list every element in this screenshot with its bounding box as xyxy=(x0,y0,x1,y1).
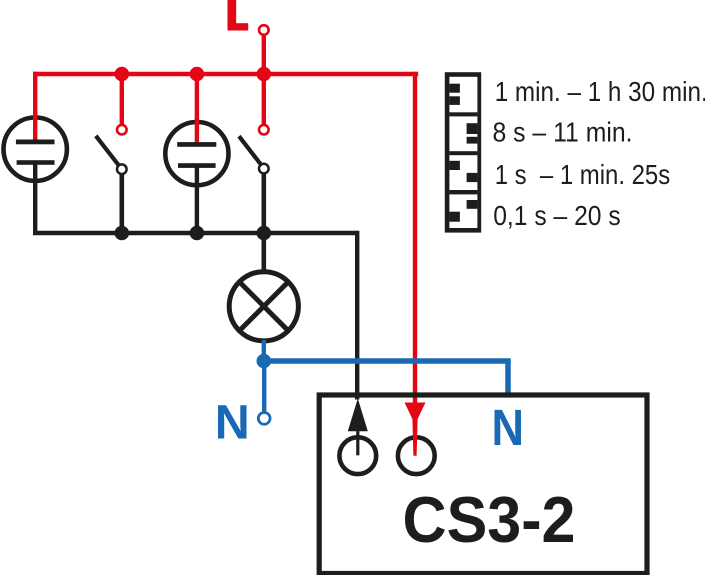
terminal S2 xyxy=(259,125,269,135)
terminal L xyxy=(259,25,269,35)
lamp E1 circle xyxy=(4,118,67,181)
terminal N xyxy=(258,413,270,425)
wire bottom bus to CS3-2 input xyxy=(355,231,359,400)
switch S2 blade xyxy=(239,136,261,164)
net label L xyxy=(228,0,249,31)
wire L bus to CS3-2 L input xyxy=(413,72,417,403)
arrow load input xyxy=(348,399,368,456)
lamp E2 electrodes xyxy=(177,142,216,168)
wire bottom bus xyxy=(33,231,357,235)
switch S1 pivot xyxy=(117,164,127,174)
switch S1 blade xyxy=(96,136,119,165)
svg-text:N: N xyxy=(215,396,250,450)
node bus/E2 bottom xyxy=(190,226,205,241)
lamp E3 (load lamp) xyxy=(229,272,298,341)
wire L terminal to bus xyxy=(262,36,266,74)
svg-text:0,1 s – 20 s: 0,1 s – 20 s xyxy=(493,200,621,231)
box CS3-2 xyxy=(319,395,647,574)
node bus/lamp xyxy=(257,226,272,241)
wire N bus to CS3-2 xyxy=(264,361,508,395)
wire node to lamp E3 xyxy=(261,233,266,273)
lamp E2 circle xyxy=(165,122,228,185)
wire lamp E1 to N-bus xyxy=(33,162,37,233)
node bus/E2 xyxy=(190,67,205,82)
svg-text:1 min. – 1 h 30 min.: 1 min. – 1 h 30 min. xyxy=(495,76,705,107)
arrow L input xyxy=(405,403,426,456)
node N xyxy=(257,354,272,369)
wire bus to lamp E1 electrode xyxy=(33,112,37,142)
node bus/S1 bottom xyxy=(115,226,130,241)
wire lamp E3 to N node xyxy=(262,340,266,361)
wire bus to switch S2 xyxy=(262,74,266,124)
terminal S1 xyxy=(117,125,127,135)
svg-text:CS3-2: CS3-2 xyxy=(403,483,576,556)
terminal CS3-2 load input xyxy=(339,437,376,474)
switch S2 pivot xyxy=(259,164,269,174)
node bus/S1 xyxy=(115,67,130,82)
range selector icon xyxy=(445,72,481,232)
wire bus to lamp E2 xyxy=(195,74,199,144)
wire bus to lamp E1 xyxy=(33,72,37,120)
svg-text:1 s – 1 min. 25s: 1 s – 1 min. 25s xyxy=(495,159,671,190)
svg-text:8 s – 11 min.: 8 s – 11 min. xyxy=(493,116,633,147)
wire bus to switch S1 xyxy=(120,74,124,124)
wire L bus xyxy=(33,72,418,76)
wire lamp E2 to bottom bus xyxy=(195,166,199,233)
node bus/S2 xyxy=(257,67,272,82)
wire S1 to bottom bus xyxy=(120,175,125,234)
svg-text:N: N xyxy=(492,399,525,456)
wire S2 to bottom bus xyxy=(261,174,266,233)
lamp E1 electrodes xyxy=(16,140,55,165)
terminal CS3-2 L input xyxy=(398,437,435,474)
wire N node to N terminal xyxy=(262,361,266,412)
